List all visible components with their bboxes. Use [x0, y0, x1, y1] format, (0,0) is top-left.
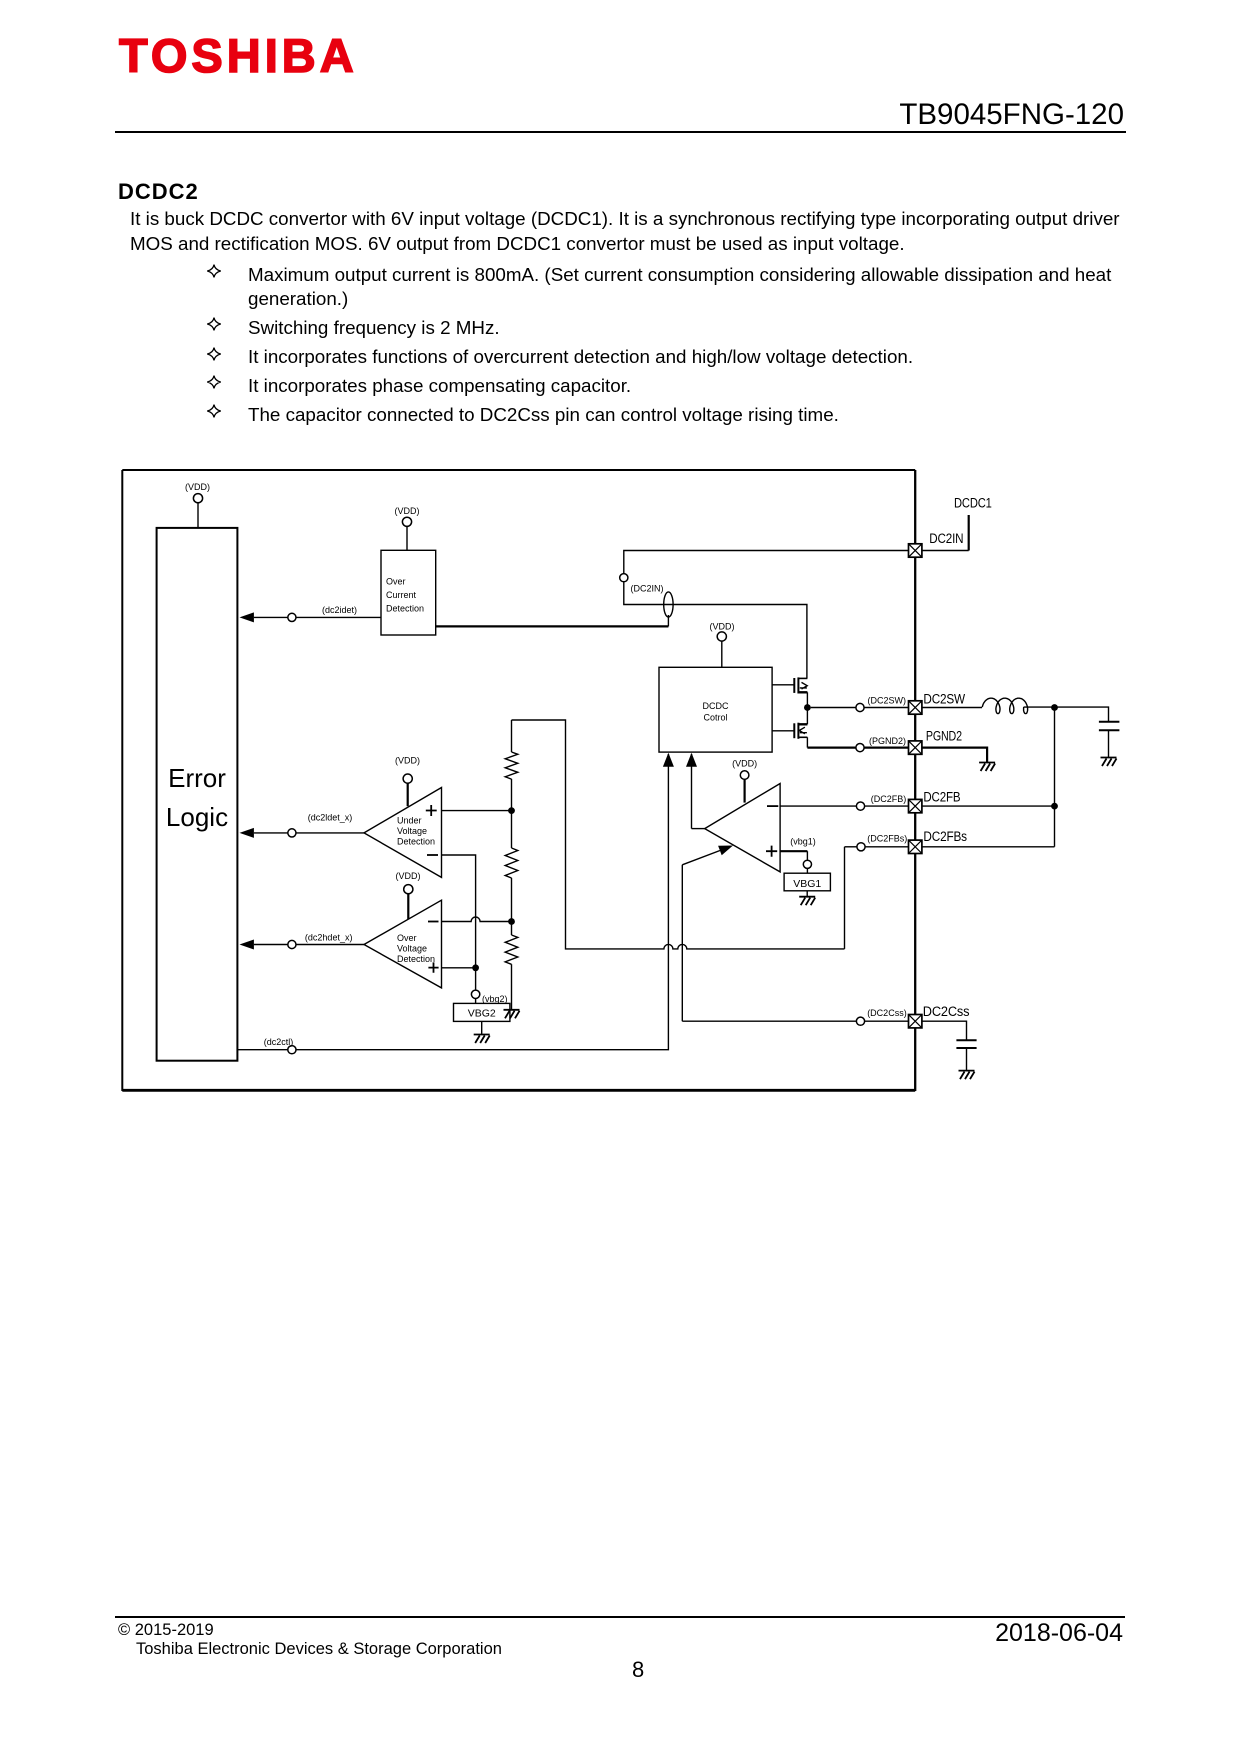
svg-text:(dc2ldet_x): (dc2ldet_x) — [308, 813, 353, 823]
svg-text:Voltage: Voltage — [397, 826, 427, 836]
svg-text:(DC2SW): (DC2SW) — [868, 696, 907, 706]
svg-text:(DC2IN): (DC2IN) — [631, 584, 664, 594]
svg-text:Over: Over — [386, 577, 406, 587]
svg-text:Current: Current — [386, 590, 417, 600]
svg-text:VBG2: VBG2 — [468, 1008, 496, 1020]
svg-text:(vbg2): (vbg2) — [482, 994, 508, 1004]
svg-text:(PGND2): (PGND2) — [869, 736, 906, 746]
svg-text:Detection: Detection — [397, 954, 435, 964]
svg-text:DC2SW: DC2SW — [923, 691, 965, 706]
svg-text:(VDD): (VDD) — [396, 871, 421, 881]
svg-text:PGND2: PGND2 — [926, 729, 962, 744]
svg-text:DC2FB: DC2FB — [923, 790, 960, 805]
svg-text:DC2FBs: DC2FBs — [923, 829, 967, 844]
svg-text:(VDD): (VDD) — [395, 756, 420, 766]
svg-text:Detection: Detection — [386, 604, 424, 614]
svg-text:(dc2hdet_x): (dc2hdet_x) — [305, 933, 353, 943]
svg-text:Cotrol: Cotrol — [703, 713, 727, 723]
svg-text:(DC2FB): (DC2FB) — [871, 794, 907, 804]
svg-text:Logic: Logic — [166, 802, 228, 832]
svg-text:DCDC: DCDC — [703, 701, 729, 711]
svg-text:(vbg1): (vbg1) — [790, 837, 816, 847]
svg-text:DC2Css: DC2Css — [923, 1004, 970, 1019]
svg-text:Over: Over — [397, 933, 417, 943]
svg-text:(dc2idet): (dc2idet) — [322, 605, 357, 615]
svg-text:DCDC1: DCDC1 — [954, 496, 992, 511]
svg-text:(VDD): (VDD) — [185, 482, 210, 492]
svg-text:Voltage: Voltage — [397, 944, 427, 954]
svg-text:DC2IN: DC2IN — [929, 531, 963, 546]
svg-text:Detection: Detection — [397, 837, 435, 847]
svg-text:(dc2ctl): (dc2ctl) — [264, 1037, 294, 1047]
svg-text:(VDD): (VDD) — [732, 759, 757, 769]
svg-text:(DC2FBs): (DC2FBs) — [867, 834, 907, 844]
svg-text:(VDD): (VDD) — [710, 622, 735, 632]
svg-text:Under: Under — [397, 816, 422, 826]
svg-text:VBG1: VBG1 — [793, 878, 821, 890]
svg-text:(DC2Css): (DC2Css) — [867, 1008, 907, 1018]
svg-text:Error: Error — [168, 763, 226, 793]
svg-text:(VDD): (VDD) — [395, 506, 420, 516]
